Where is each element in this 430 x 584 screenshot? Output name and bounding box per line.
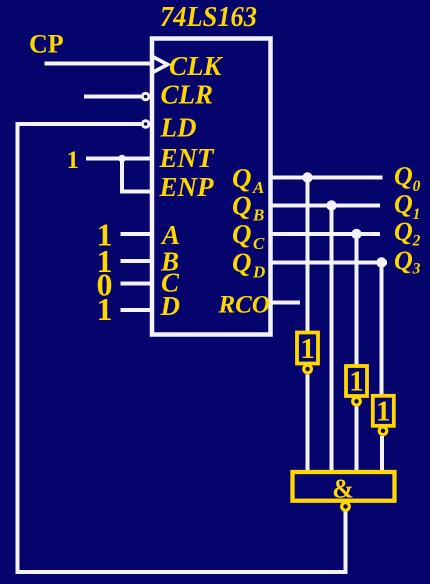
svg-text:Q: Q	[232, 248, 252, 278]
svg-text:CP: CP	[29, 30, 64, 59]
svg-text:Q: Q	[394, 246, 413, 275]
pin label QB	[232, 191, 264, 225]
svg-text:Q: Q	[394, 217, 413, 246]
wire C input stub	[121, 282, 153, 286]
junction dot on QB	[326, 200, 336, 210]
svg-text:1: 1	[300, 333, 315, 365]
svg-text:RCO: RCO	[218, 292, 270, 319]
svg-text:A: A	[160, 220, 180, 250]
svg-text:ENP: ENP	[159, 172, 215, 202]
wire QD output	[272, 261, 387, 265]
inverter G1 output bubble	[302, 364, 313, 375]
wire QB vertical to AND gate	[330, 206, 334, 475]
node Q1 label	[394, 190, 420, 224]
inverter G2 box	[346, 366, 367, 398]
IC U1 body	[152, 39, 271, 335]
wire G2 bubble to AND gate	[355, 407, 359, 475]
svg-text:ENT: ENT	[159, 143, 216, 173]
wire A input stub	[121, 232, 153, 236]
svg-text:D: D	[160, 291, 181, 321]
junction dot on QD	[376, 257, 386, 267]
wire QD vertical to inverter G3	[380, 263, 384, 397]
svg-text:&: &	[332, 474, 354, 504]
svg-text:2: 2	[412, 233, 421, 250]
svg-text:Q: Q	[232, 191, 252, 221]
pin label QA	[232, 163, 264, 197]
svg-text:B: B	[252, 206, 264, 225]
svg-text:74LS163: 74LS163	[160, 1, 257, 33]
svg-text:1: 1	[376, 396, 391, 428]
pin label QD	[232, 248, 265, 282]
svg-text:A: A	[252, 178, 264, 197]
svg-text:Q: Q	[232, 219, 252, 249]
wire G3 bubble to AND gate	[380, 436, 384, 474]
wire QA vertical to inverter G1	[306, 178, 310, 334]
wire branch to ENP	[122, 159, 152, 192]
svg-text:1: 1	[349, 366, 364, 398]
wire QA output	[272, 176, 383, 180]
inverter G2 output bubble	[351, 396, 362, 407]
svg-text:Q: Q	[394, 162, 413, 191]
wire D input stub	[121, 308, 153, 312]
inverter G1 box	[297, 333, 318, 366]
wire QC vertical to inverter G2	[355, 234, 359, 367]
clock triangle at CLK pin	[153, 57, 168, 73]
svg-text:Q: Q	[232, 163, 252, 193]
node Q3 label	[394, 246, 421, 278]
bubble on CLR pin	[141, 92, 150, 101]
inverter G3 box	[373, 396, 394, 428]
svg-text:C: C	[253, 234, 265, 253]
bubble on LD pin	[141, 119, 150, 128]
svg-text:CLR: CLR	[161, 80, 214, 110]
svg-text:CLK: CLK	[169, 51, 224, 81]
svg-text:0: 0	[413, 178, 421, 195]
svg-text:D: D	[252, 263, 265, 282]
wire QC output	[272, 232, 380, 236]
node Q2 label	[394, 217, 421, 250]
junction dot on QA	[302, 172, 312, 182]
wire CLR input	[84, 95, 141, 99]
wire CP to CLK	[45, 62, 153, 66]
svg-text:1: 1	[67, 147, 80, 174]
wire QB output	[272, 204, 380, 208]
wire B input stub	[121, 259, 153, 263]
wire ENT input	[86, 157, 152, 161]
wire RCO stub	[272, 301, 300, 305]
feedback wire AND output to LD	[18, 124, 346, 572]
svg-text:3: 3	[412, 261, 421, 278]
svg-text:1: 1	[413, 206, 421, 223]
junction dot ENT/ENP	[118, 155, 126, 163]
pin label QC	[232, 219, 265, 253]
AND gate G4 box	[293, 472, 395, 504]
node Q0 label	[394, 162, 421, 196]
AND gate G4 output bubble	[340, 501, 351, 512]
inverter G3 output bubble	[378, 425, 389, 436]
wire G1 bubble to AND gate	[306, 375, 310, 475]
svg-text:1: 1	[97, 291, 113, 327]
svg-text:LD: LD	[160, 113, 197, 143]
svg-text:Q: Q	[394, 190, 413, 219]
junction dot on QC	[351, 229, 361, 239]
